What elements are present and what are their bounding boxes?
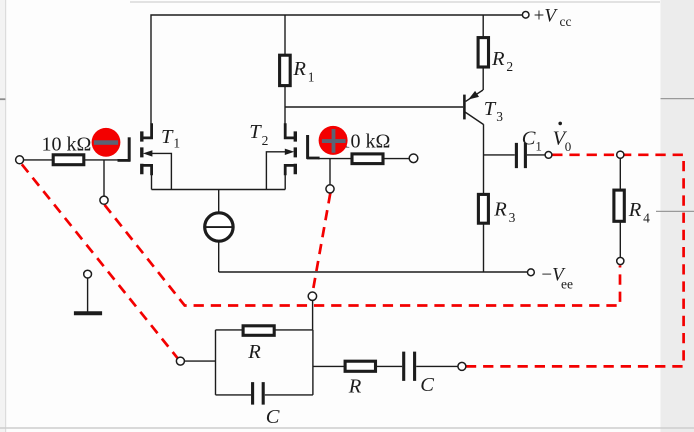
wire T1 source lead: [151, 175, 153, 190]
resistor R series: [345, 361, 375, 371]
capacitor C series: [404, 352, 415, 381]
svg-text:ee: ee: [561, 276, 573, 291]
wire series R to series C: [376, 365, 403, 367]
wire collector node to C1: [484, 154, 515, 156]
svg-text:C: C: [266, 406, 280, 428]
wire RC block bottom branch: [216, 394, 313, 396]
wire R1 branch lower to T2 drain: [284, 86, 286, 124]
transistor T3 pnp: [463, 95, 466, 120]
capacitor C1: [516, 143, 525, 168]
node R4 bottom: [617, 257, 624, 264]
wire left input terminal to 10k: [24, 159, 54, 161]
wire R2 bottom to T3 emitter: [482, 67, 484, 90]
wire T2 gate input: [318, 158, 352, 160]
svg-text:1: 1: [535, 139, 542, 154]
wire T1 gate input: [84, 159, 120, 161]
wire series C to feedback terminal: [416, 365, 458, 367]
svg-text:1: 1: [173, 135, 180, 150]
red dashed wire D: output feedback to series C terminal: [466, 155, 683, 367]
resistor 10k ohm left: [53, 155, 84, 165]
wire current source top lead: [218, 190, 220, 213]
node RC block input: [176, 357, 184, 365]
wire R1 branch upper: [284, 15, 286, 55]
svg-text:0: 0: [565, 139, 572, 154]
red dashed wire C: plus node to RC block top node: [313, 193, 331, 292]
wire RC block output to series R: [313, 365, 345, 367]
red dashed wire B: minus node to R4 bottom: [105, 205, 621, 306]
wire right 10k to terminal: [383, 158, 409, 160]
svg-text:3: 3: [509, 210, 516, 225]
svg-text:R: R: [348, 375, 362, 397]
node plus input: [326, 185, 334, 193]
wire minus-input node drop: [103, 160, 105, 196]
wire bottom -Vee rail: [219, 271, 528, 273]
svg-text:R: R: [491, 48, 505, 70]
wire T2 source lead: [284, 175, 286, 190]
wire plus-input node drop: [329, 159, 331, 185]
node ground terminal: [84, 270, 92, 278]
svg-text:1: 1: [308, 70, 315, 85]
node RC block top: [308, 292, 316, 300]
svg-text:+V: +V: [534, 5, 559, 26]
svg-text:R: R: [292, 58, 306, 80]
svg-text:T: T: [484, 98, 497, 120]
wire T3 collector vertical through R3 to bottom rail: [483, 124, 485, 272]
node +Vcc terminal: [522, 12, 529, 19]
svg-text:3: 3: [496, 109, 503, 124]
marker plus red circle: [319, 126, 348, 155]
svg-text:T: T: [249, 121, 262, 143]
node -Vee terminal: [528, 269, 535, 276]
wire R4 top lead: [619, 158, 621, 190]
svg-text:C: C: [420, 374, 434, 396]
svg-text:cc: cc: [560, 14, 572, 29]
node R4 top: [617, 151, 624, 158]
wire node-to-RC-block vertical: [312, 300, 314, 330]
wire node R1/T2-drain to T3 base: [285, 106, 463, 108]
svg-text:4: 4: [643, 210, 650, 225]
wire C1 to output node: [527, 154, 545, 156]
wire T1 body to source rail: [146, 153, 171, 189]
node right input terminal: [409, 154, 418, 163]
wire current source bottom lead: [218, 241, 220, 272]
svg-text:2: 2: [262, 133, 269, 148]
wire T2 body to source rail: [266, 152, 290, 190]
wire R2 top lead: [482, 15, 484, 38]
node output V0: [545, 152, 552, 159]
svg-text:R: R: [247, 341, 261, 363]
transistor T1 nmos: [118, 123, 152, 175]
node feedback terminal: [458, 362, 466, 370]
capacitor C parallel: [253, 382, 264, 405]
wire RC parallel block frame: [216, 330, 313, 395]
wire RC block input: [185, 360, 216, 362]
resistor R2: [478, 38, 488, 67]
wire common source rail: [152, 189, 286, 191]
svg-text:2: 2: [506, 59, 513, 74]
ground: [74, 311, 102, 315]
svg-text:10 kΩ: 10 kΩ: [341, 130, 391, 152]
svg-text:C: C: [522, 127, 536, 149]
resistor R4: [614, 190, 624, 221]
resistor R parallel: [243, 326, 274, 336]
svg-text:R: R: [493, 198, 507, 220]
resistor 10k ohm right: [352, 154, 383, 164]
resistor R1: [280, 55, 291, 85]
node minus input: [100, 196, 108, 204]
resistor R3: [478, 194, 488, 223]
wire ground lead: [87, 278, 89, 312]
current source: [205, 213, 233, 241]
red dashed wire A: left input terminal to RC block input: [22, 155, 684, 367]
node left input terminal: [16, 156, 24, 164]
wire R4 bottom lead: [619, 221, 621, 257]
svg-text:10 kΩ: 10 kΩ: [42, 133, 92, 155]
wire top +Vcc rail: [151, 15, 522, 124]
svg-text:R: R: [628, 199, 642, 221]
svg-text:T: T: [161, 126, 174, 148]
marker minus red circle: [92, 128, 121, 157]
transistor T2 nmos: [285, 123, 319, 175]
